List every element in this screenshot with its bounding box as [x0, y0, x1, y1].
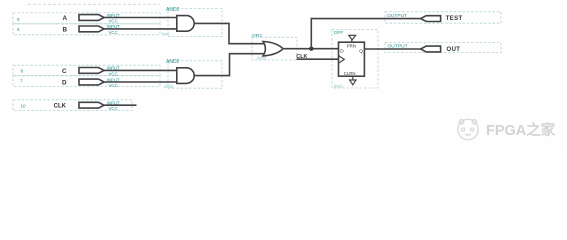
AND gate U2 — [177, 68, 194, 84]
wire DFF Q to output pin OUT — [364, 48, 420, 50]
svg-text:9: 9 — [17, 17, 20, 22]
wire net CLK stub from pin CLK — [104, 104, 137, 106]
selection box U4 DFF — [332, 30, 378, 89]
svg-text:OUT: OUT — [447, 47, 461, 53]
DFF clock input triangle — [339, 56, 345, 64]
selection box pin TEST — [385, 12, 501, 23]
svg-text:Q: Q — [359, 48, 363, 54]
wire U2 output to OR gate U3 input 2 — [194, 54, 266, 76]
svg-text:inst3: inst3 — [257, 56, 267, 61]
watermark logo circle — [458, 119, 478, 139]
svg-text:D: D — [62, 80, 67, 87]
input pin C — [62, 66, 120, 77]
selection box gate U2 AND2 — [168, 61, 222, 88]
svg-text:VCC: VCC — [109, 71, 118, 76]
svg-text:DFF: DFF — [334, 30, 343, 36]
svg-text:AND2: AND2 — [166, 59, 180, 65]
faint top boundary line — [28, 3, 160, 5]
svg-text:AND2: AND2 — [166, 7, 180, 13]
svg-text:inst2: inst2 — [164, 84, 174, 89]
selection box pin A — [13, 13, 160, 24]
svg-text:FPGA之家: FPGA之家 — [486, 121, 556, 139]
svg-text:CLRN: CLRN — [344, 71, 356, 76]
svg-text:OUTPUT: OUTPUT — [388, 44, 408, 50]
svg-text:VCC: VCC — [109, 30, 118, 35]
OR gate U3 — [263, 42, 283, 56]
svg-text:6: 6 — [17, 27, 20, 32]
svg-text:C: C — [62, 68, 67, 75]
selection box pin C — [13, 65, 160, 76]
selection box pin OUT — [385, 43, 501, 53]
wire U3 output to node N1 and DFF D input — [282, 48, 338, 50]
svg-text:CLK: CLK — [54, 104, 67, 110]
node N1 junction dot — [309, 47, 313, 51]
svg-text:A: A — [62, 15, 67, 22]
D flip-flop U4 body — [339, 42, 365, 76]
wire node N1 up to output pin TEST — [311, 19, 420, 49]
input pin B — [62, 24, 120, 35]
wire net CLK to DFF clock input — [297, 58, 339, 60]
output pin OUT symbol — [421, 46, 441, 52]
wire net A from pin A to AND gate U1 input 1 — [104, 17, 177, 19]
selection box pin B — [13, 24, 160, 35]
svg-text:OUTPUT: OUTPUT — [387, 13, 407, 19]
svg-text:PRN: PRN — [347, 44, 356, 49]
svg-text:B: B — [62, 26, 67, 33]
AND gate U1 — [177, 16, 194, 32]
output pin TEST symbol — [421, 16, 441, 22]
PRN unconnected vcc symbol — [349, 35, 356, 42]
selection box pin D — [13, 76, 160, 87]
selection box gate U1 AND2 — [168, 9, 222, 37]
input pin CLK — [54, 101, 120, 112]
selection box pin CLK — [13, 100, 132, 111]
svg-text:VCC: VCC — [109, 18, 118, 23]
svg-text:8: 8 — [21, 69, 24, 74]
svg-text:VCC: VCC — [109, 83, 118, 88]
wire net B from pin B to AND gate U1 input 2 — [104, 28, 177, 30]
selection box gate U3 OR2 — [252, 37, 297, 60]
CLRN unconnected vcc symbol — [350, 76, 356, 85]
wire U1 output to OR gate U3 input 1 — [194, 23, 266, 43]
wire net D from pin D to AND gate U2 input 2 — [104, 81, 177, 83]
svg-text:inst1: inst1 — [334, 84, 344, 89]
svg-text:D: D — [340, 48, 344, 54]
svg-text:VCC: VCC — [109, 106, 118, 111]
svg-text:7: 7 — [20, 79, 23, 84]
input pin D — [62, 77, 120, 88]
svg-text:TEST: TEST — [446, 16, 463, 22]
svg-text:inst: inst — [162, 32, 170, 37]
input pin A — [62, 13, 120, 24]
svg-text:OR2: OR2 — [252, 33, 262, 39]
svg-text:10: 10 — [21, 104, 27, 109]
wire net C from pin C to AND gate U2 input 1 — [104, 69, 177, 71]
